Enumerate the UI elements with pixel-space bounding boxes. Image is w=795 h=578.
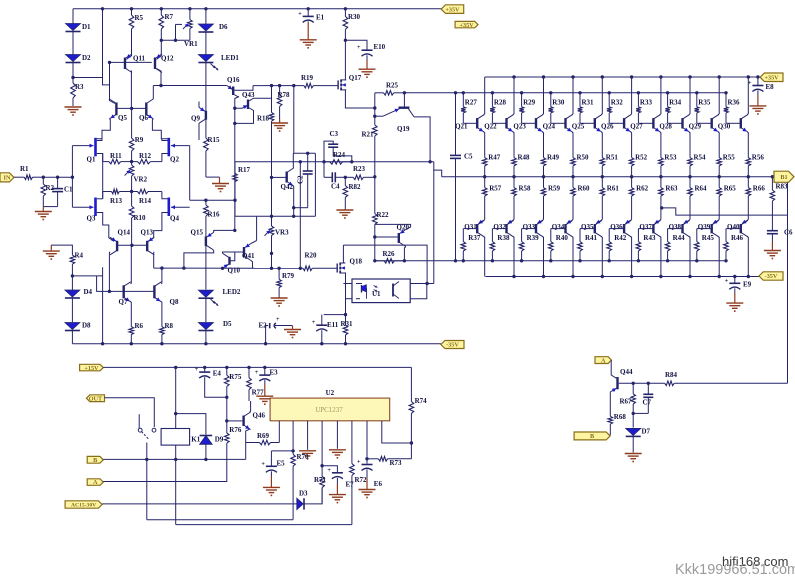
wire Q23 emitter	[543, 132, 544, 158]
wire Q28 base	[668, 122, 683, 124]
resistor R70	[291, 453, 309, 479]
svg-text:E7: E7	[346, 481, 355, 489]
svg-text:R47: R47	[488, 154, 501, 162]
wire Q16 collector column	[235, 97, 239, 231]
wire C2 bottom	[294, 207, 308, 209]
ground R15 stub	[219, 177, 221, 183]
wire Q30 emitter	[747, 132, 748, 158]
wire Q17 source	[345, 90, 374, 108]
wire output +35V rail	[485, 76, 760, 78]
junction	[542, 175, 545, 178]
junction rail	[264, 342, 267, 345]
svg-text:R51: R51	[606, 154, 619, 162]
transistor Q23	[513, 115, 543, 132]
junction	[428, 160, 431, 163]
wire Q35 collector	[601, 237, 602, 277]
junction	[512, 175, 515, 178]
junction	[718, 275, 721, 278]
svg-text:Q31: Q31	[464, 223, 477, 231]
transistor Q29	[689, 115, 719, 132]
junction	[174, 366, 177, 369]
svg-text:R79: R79	[282, 272, 295, 280]
svg-text:Q37: Q37	[639, 223, 652, 231]
svg-text:IN: IN	[4, 175, 11, 182]
wire Q29 emitter	[718, 132, 719, 158]
svg-text:R22: R22	[377, 211, 390, 219]
transistor Q17	[338, 74, 362, 90]
wire upper base rail	[404, 92, 726, 94]
resistor R18	[257, 86, 274, 178]
svg-text:R8: R8	[165, 322, 174, 330]
resistor R47	[482, 154, 500, 177]
transistor Q20	[397, 224, 410, 247]
wire lower base rail	[375, 260, 726, 262]
junction	[724, 91, 727, 94]
trimmer VR1	[183, 9, 198, 48]
resistor R40	[549, 229, 569, 261]
resistor R67	[620, 383, 636, 413]
svg-text:R28: R28	[494, 99, 507, 107]
transistor Q43	[242, 91, 255, 109]
transistor Q19	[383, 93, 414, 133]
wire Q11 collector	[130, 71, 133, 108]
junction	[344, 313, 347, 316]
capacitor E11	[312, 315, 339, 344]
ground E3	[256, 385, 273, 405]
junction	[637, 259, 640, 262]
svg-text:+: +	[357, 460, 361, 466]
transistor Q36	[610, 221, 631, 237]
transistor Q40	[727, 221, 748, 237]
wire Q42 base	[272, 176, 286, 178]
transistor Q10	[223, 253, 241, 274]
resistor R30	[549, 93, 565, 124]
wire Q4 source to Q13	[149, 213, 168, 242]
junction	[549, 259, 552, 262]
wire E4 to R75 tap	[205, 382, 227, 398]
resistor R82	[343, 177, 361, 209]
resistor R63	[659, 177, 678, 220]
resistor R3	[71, 83, 84, 106]
svg-text:D7: D7	[642, 428, 651, 436]
svg-text:OUT: OUT	[89, 395, 103, 402]
svg-text:E6: E6	[374, 480, 383, 488]
svg-text:R84: R84	[665, 371, 678, 379]
junction	[71, 76, 74, 79]
diode D9	[200, 436, 224, 445]
junction	[608, 91, 611, 94]
svg-text:Q2: Q2	[170, 156, 179, 164]
wire VR1 wiper drop	[175, 24, 177, 40]
resistor R27	[461, 93, 477, 124]
junction rail	[344, 342, 347, 345]
wire Q29 base	[697, 122, 712, 124]
wire Q26 collector	[631, 77, 632, 115]
transistor Q14	[110, 229, 130, 255]
resistor R36	[724, 93, 740, 124]
resistor R61	[600, 177, 619, 220]
wire Q3 drain lead	[97, 198, 103, 200]
svg-text:R33: R33	[640, 99, 653, 107]
resistor R24	[324, 151, 352, 164]
resistor R23	[345, 165, 375, 180]
switch contact	[138, 414, 156, 459]
svg-text:R49: R49	[547, 154, 560, 162]
svg-text:R72: R72	[355, 476, 368, 484]
wire D7 to gnd	[632, 436, 634, 452]
svg-text:-35V: -35V	[446, 342, 459, 349]
wire Q24 collector	[572, 77, 573, 115]
wire Q5 Q6 bases	[116, 107, 146, 109]
resistor R29	[519, 93, 535, 124]
wire R17 col down	[234, 200, 236, 216]
svg-text:Q27: Q27	[630, 123, 643, 131]
wire staircase to output rail	[434, 162, 442, 177]
junction	[160, 266, 163, 269]
wire Q35 base	[580, 228, 595, 230]
svg-text:R76: R76	[229, 426, 242, 434]
wire Q4 drain	[162, 192, 168, 199]
svg-text:Q34: Q34	[552, 223, 565, 231]
svg-text:R19: R19	[301, 74, 314, 82]
svg-text:R63: R63	[665, 185, 678, 193]
ground E7	[329, 484, 346, 503]
transistor Q6	[139, 99, 153, 122]
resistor R66	[746, 177, 765, 220]
wire Q28 collector	[689, 77, 690, 115]
wire gnd to R4	[51, 245, 72, 255]
wire Q43 base loop	[235, 108, 254, 123]
wire Q16 collector diag	[233, 94, 239, 97]
resistor R37	[461, 229, 481, 261]
wire to R19	[253, 85, 304, 87]
svg-text:R5: R5	[135, 14, 144, 22]
wire Q14 collector down	[108, 252, 111, 292]
wire sense loop	[147, 519, 293, 521]
junction	[277, 267, 280, 270]
svg-text:Q35: Q35	[581, 223, 594, 231]
wire Q17 drain	[344, 79, 347, 81]
wire Q7 Q8 base line	[109, 290, 154, 292]
resistor R53	[659, 154, 677, 177]
junction	[647, 382, 650, 385]
wire R7 to Q12 emitter	[157, 29, 162, 59]
resistor R58	[512, 177, 531, 220]
junction	[306, 152, 309, 155]
diode D4	[65, 288, 93, 298]
svg-text:E8: E8	[766, 83, 775, 91]
svg-text:R74: R74	[415, 397, 428, 405]
wire D3 to R71	[304, 488, 322, 504]
arrow Q31 emitter	[478, 220, 483, 224]
wire E11 tap	[324, 314, 346, 316]
wire to D9	[176, 414, 206, 435]
svg-text:R4: R4	[75, 252, 84, 260]
svg-text:R75: R75	[229, 373, 242, 381]
junction	[307, 7, 310, 10]
svg-text:R9: R9	[135, 136, 144, 144]
resistor R5	[129, 9, 143, 29]
ground E1	[300, 22, 317, 49]
junction	[733, 275, 736, 278]
junction	[320, 464, 323, 467]
arrow Q32 emitter	[508, 220, 513, 224]
arrow Q39 emitter	[713, 220, 718, 224]
junction	[659, 175, 662, 178]
svg-text:Q4: Q4	[170, 215, 179, 223]
ground R4 stub	[50, 245, 52, 251]
svg-text:R20: R20	[305, 252, 318, 260]
junction	[520, 259, 523, 262]
svg-text:R31: R31	[582, 99, 595, 107]
svg-text:Q38: Q38	[669, 223, 682, 231]
svg-text:R12: R12	[139, 152, 152, 160]
svg-text:R30: R30	[552, 99, 565, 107]
wire Q22 base	[492, 122, 506, 124]
wire Q22 collector	[513, 77, 514, 115]
junction	[410, 441, 413, 444]
wire Q8 emitter	[160, 302, 163, 327]
junction	[174, 458, 177, 461]
junction	[542, 75, 545, 78]
svg-text:R17: R17	[238, 166, 251, 174]
svg-text:Q26: Q26	[601, 123, 614, 131]
wire C2 top line	[293, 152, 315, 154]
svg-text:K1: K1	[191, 436, 200, 444]
wire Q41 base	[235, 251, 243, 253]
wire Q27 emitter	[660, 132, 661, 158]
wire Q16 emitter diag	[227, 86, 232, 90]
junction	[637, 91, 640, 94]
resistor R22	[373, 177, 390, 237]
svg-text:Q42: Q42	[281, 183, 294, 191]
junction	[145, 458, 148, 461]
junction	[632, 412, 635, 415]
transistor Q39	[698, 221, 719, 237]
svg-text:R46: R46	[731, 234, 744, 242]
diode D3	[297, 490, 308, 510]
svg-text:R45: R45	[702, 234, 715, 242]
svg-text:R44: R44	[673, 234, 686, 242]
transistor Q25	[572, 115, 602, 132]
svg-text:C1: C1	[64, 186, 73, 194]
wire Q3 gate	[72, 206, 93, 208]
wire	[205, 246, 207, 289]
svg-text:Q25: Q25	[572, 123, 585, 131]
resistor R54	[688, 154, 706, 177]
ground R78	[271, 119, 288, 132]
wire Q8 collector up	[160, 268, 163, 284]
transistor Q35	[581, 221, 602, 237]
wire Q40 collector	[747, 237, 748, 277]
junction	[299, 160, 302, 163]
arrow Q1 gate	[90, 144, 94, 148]
wire +15V rail	[103, 366, 411, 368]
transistor Q28	[659, 115, 689, 132]
transistor Q27	[630, 115, 660, 132]
resistor R25	[375, 82, 405, 96]
wire Q18 drain line	[343, 245, 427, 283]
capacitor C2	[303, 153, 313, 207]
junction	[549, 91, 552, 94]
svg-text:R67: R67	[620, 398, 633, 406]
svg-text:Q28: Q28	[659, 123, 672, 131]
wire Q5 emitter to Q1	[97, 119, 111, 139]
wire Q33 emitter	[537, 220, 543, 224]
wire E5 tap	[271, 450, 293, 452]
wire Q38 emitter	[684, 220, 690, 224]
junction	[270, 84, 273, 87]
resistor R83	[770, 177, 788, 231]
wire Q18 drain	[343, 245, 345, 263]
transistor Q41	[242, 244, 255, 261]
svg-text:E9: E9	[743, 281, 752, 289]
port OUT	[86, 395, 104, 403]
wire Q37 emitter	[655, 220, 661, 224]
junction	[373, 115, 376, 118]
resistor R14	[132, 189, 162, 205]
resistor R72	[350, 464, 367, 525]
wire Q36 emitter	[625, 220, 631, 224]
wire Q25 emitter	[601, 132, 602, 158]
relay K1	[161, 429, 201, 446]
svg-text:E2: E2	[259, 322, 268, 330]
wire Q22 emitter	[513, 132, 514, 158]
resistor R10	[129, 192, 146, 246]
wire Q42 collector	[292, 153, 294, 168]
wire VR1 bottom	[161, 39, 190, 41]
arrow Q37 emitter	[655, 220, 660, 224]
junction	[483, 175, 486, 178]
diode D8	[65, 322, 91, 331]
port A right	[595, 357, 612, 365]
trimmer VR3	[265, 226, 290, 253]
wire feedback line	[190, 199, 235, 201]
junction	[204, 199, 207, 202]
wire right drop	[314, 153, 316, 216]
led LED1 arrows	[211, 64, 219, 71]
capacitor C6	[767, 229, 793, 243]
wire Q4 gate	[171, 206, 190, 208]
junction rail	[204, 342, 207, 345]
wire Q1 gate	[72, 145, 93, 147]
resistor R60	[571, 177, 590, 220]
junction	[542, 275, 545, 278]
svg-text:Q30: Q30	[718, 123, 731, 131]
svg-text:E1: E1	[316, 14, 325, 22]
capacitor C5	[450, 93, 473, 261]
junction	[462, 91, 465, 94]
wire Q31 emitter	[478, 220, 484, 224]
resistor R15	[204, 136, 220, 177]
wire Q39 collector	[718, 237, 719, 277]
svg-text:Q5: Q5	[118, 114, 127, 122]
ground R3	[65, 107, 82, 116]
svg-text:R65: R65	[724, 185, 737, 193]
junction	[204, 458, 207, 461]
svg-text:R57: R57	[489, 185, 502, 193]
transistor Q15	[191, 229, 213, 250]
svg-text:R78: R78	[278, 91, 291, 99]
ground E6	[359, 478, 376, 498]
junction	[344, 7, 347, 10]
transistor Q8	[154, 282, 179, 306]
wire Q46 emitter	[246, 429, 250, 443]
junction	[263, 366, 266, 369]
junction	[130, 160, 133, 163]
svg-text:Q41: Q41	[242, 252, 255, 260]
transistor Q1	[87, 138, 96, 164]
capacitor E5	[261, 451, 285, 477]
wire	[72, 32, 74, 55]
wire R72 loop	[176, 524, 352, 526]
wire Q40 emitter	[742, 220, 748, 224]
wire Q26 base	[609, 122, 624, 124]
wire Q28 emitter	[689, 132, 690, 158]
junction	[270, 215, 273, 218]
resistor R39	[519, 229, 539, 261]
junction	[292, 84, 295, 87]
diode D6	[198, 23, 228, 32]
capacitor C4	[324, 172, 345, 190]
junction	[233, 199, 236, 202]
svg-text:R77: R77	[252, 389, 265, 397]
junction	[203, 366, 206, 369]
resistor R78	[277, 86, 290, 119]
wire	[205, 331, 207, 344]
svg-text:R15: R15	[208, 136, 221, 144]
ground R4	[43, 251, 60, 260]
capacitor E9	[725, 277, 752, 294]
resistor R31	[578, 93, 594, 124]
svg-text:Q14: Q14	[118, 229, 131, 237]
junction	[688, 75, 691, 78]
transistor Q44	[612, 368, 633, 392]
svg-text:+: +	[357, 45, 361, 51]
junction	[174, 412, 177, 415]
transistor Q13	[141, 229, 155, 255]
svg-text:R56: R56	[752, 154, 765, 162]
arrow Q43 emitter	[243, 105, 248, 109]
junction	[130, 190, 133, 193]
junction	[571, 275, 574, 278]
transistor Q11	[125, 54, 146, 73]
resistor R57	[482, 177, 501, 220]
wire Q15 emitter	[213, 230, 235, 233]
resistor R19	[301, 74, 338, 88]
junction	[233, 122, 236, 125]
junction	[365, 457, 368, 460]
wire Q38 collector	[689, 237, 690, 277]
wire Q11 Q12 base line	[110, 61, 152, 63]
wire U2 pin5	[336, 421, 338, 449]
resistor R50	[571, 154, 589, 177]
svg-text:C4: C4	[331, 183, 340, 191]
junction	[42, 176, 45, 179]
svg-text:R71: R71	[314, 476, 327, 484]
svg-text:Q21: Q21	[455, 123, 468, 131]
svg-text:Q46: Q46	[253, 412, 266, 420]
svg-text:R14: R14	[139, 197, 152, 205]
svg-text:+15V: +15V	[84, 365, 99, 372]
svg-text:Q18: Q18	[350, 258, 363, 266]
resistor R13	[103, 189, 132, 205]
junction	[578, 91, 581, 94]
resistor R45	[695, 229, 715, 261]
wire AC line	[102, 503, 296, 505]
transistor Q34	[552, 221, 573, 237]
wire R75 R76 mid	[226, 397, 228, 421]
